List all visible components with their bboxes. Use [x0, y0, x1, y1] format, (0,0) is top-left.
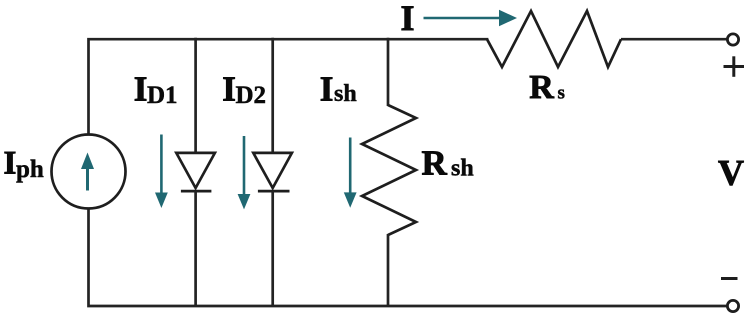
wire top rail: [89, 39, 488, 135]
wire Rsh branch lower: [387, 234, 390, 306]
label Rsh: [422, 144, 474, 183]
svg-text:I: I: [134, 69, 148, 108]
label Ish: [320, 69, 357, 108]
svg-text:R: R: [422, 144, 448, 183]
svg-text:I: I: [4, 146, 17, 182]
svg-text:sh: sh: [334, 81, 357, 107]
current arrow ID1: [155, 135, 168, 209]
diode D2: [253, 153, 292, 191]
svg-text:V: V: [718, 153, 744, 193]
svg-text:ph: ph: [16, 156, 44, 183]
diode D1: [176, 153, 215, 191]
current arrow Ish: [344, 138, 357, 208]
resistor Rsh: [362, 105, 416, 235]
current arrow ID2: [238, 136, 251, 209]
wire diode D1 branch upper: [194, 38, 197, 154]
svg-text:sh: sh: [451, 155, 474, 181]
svg-text:R: R: [529, 69, 554, 106]
current source U1 (Iph): [52, 135, 126, 209]
label ID2: [222, 69, 266, 109]
terminal minus: [727, 300, 738, 311]
label Rs: [529, 69, 565, 106]
svg-text:s: s: [558, 83, 565, 104]
resistor Rs: [487, 11, 621, 67]
label Iph: [4, 146, 44, 184]
current arrow I: [424, 10, 518, 26]
wire diode D2 branch upper: [271, 38, 274, 154]
wire top-right segment: [621, 38, 727, 41]
svg-text:I: I: [401, 0, 415, 38]
label ID1: [134, 69, 178, 109]
svg-text:D2: D2: [236, 82, 267, 109]
wire bottom rail: [89, 209, 728, 307]
svg-text:I: I: [320, 69, 334, 108]
svg-text:D1: D1: [147, 82, 178, 109]
plus sign: [724, 56, 745, 77]
wire diode D1 branch lower: [194, 191, 197, 306]
minus sign: [721, 277, 738, 280]
terminal plus: [727, 34, 738, 45]
wire diode D2 branch lower: [271, 191, 274, 306]
svg-text:I: I: [222, 69, 236, 108]
wire Rsh branch upper: [387, 38, 390, 106]
